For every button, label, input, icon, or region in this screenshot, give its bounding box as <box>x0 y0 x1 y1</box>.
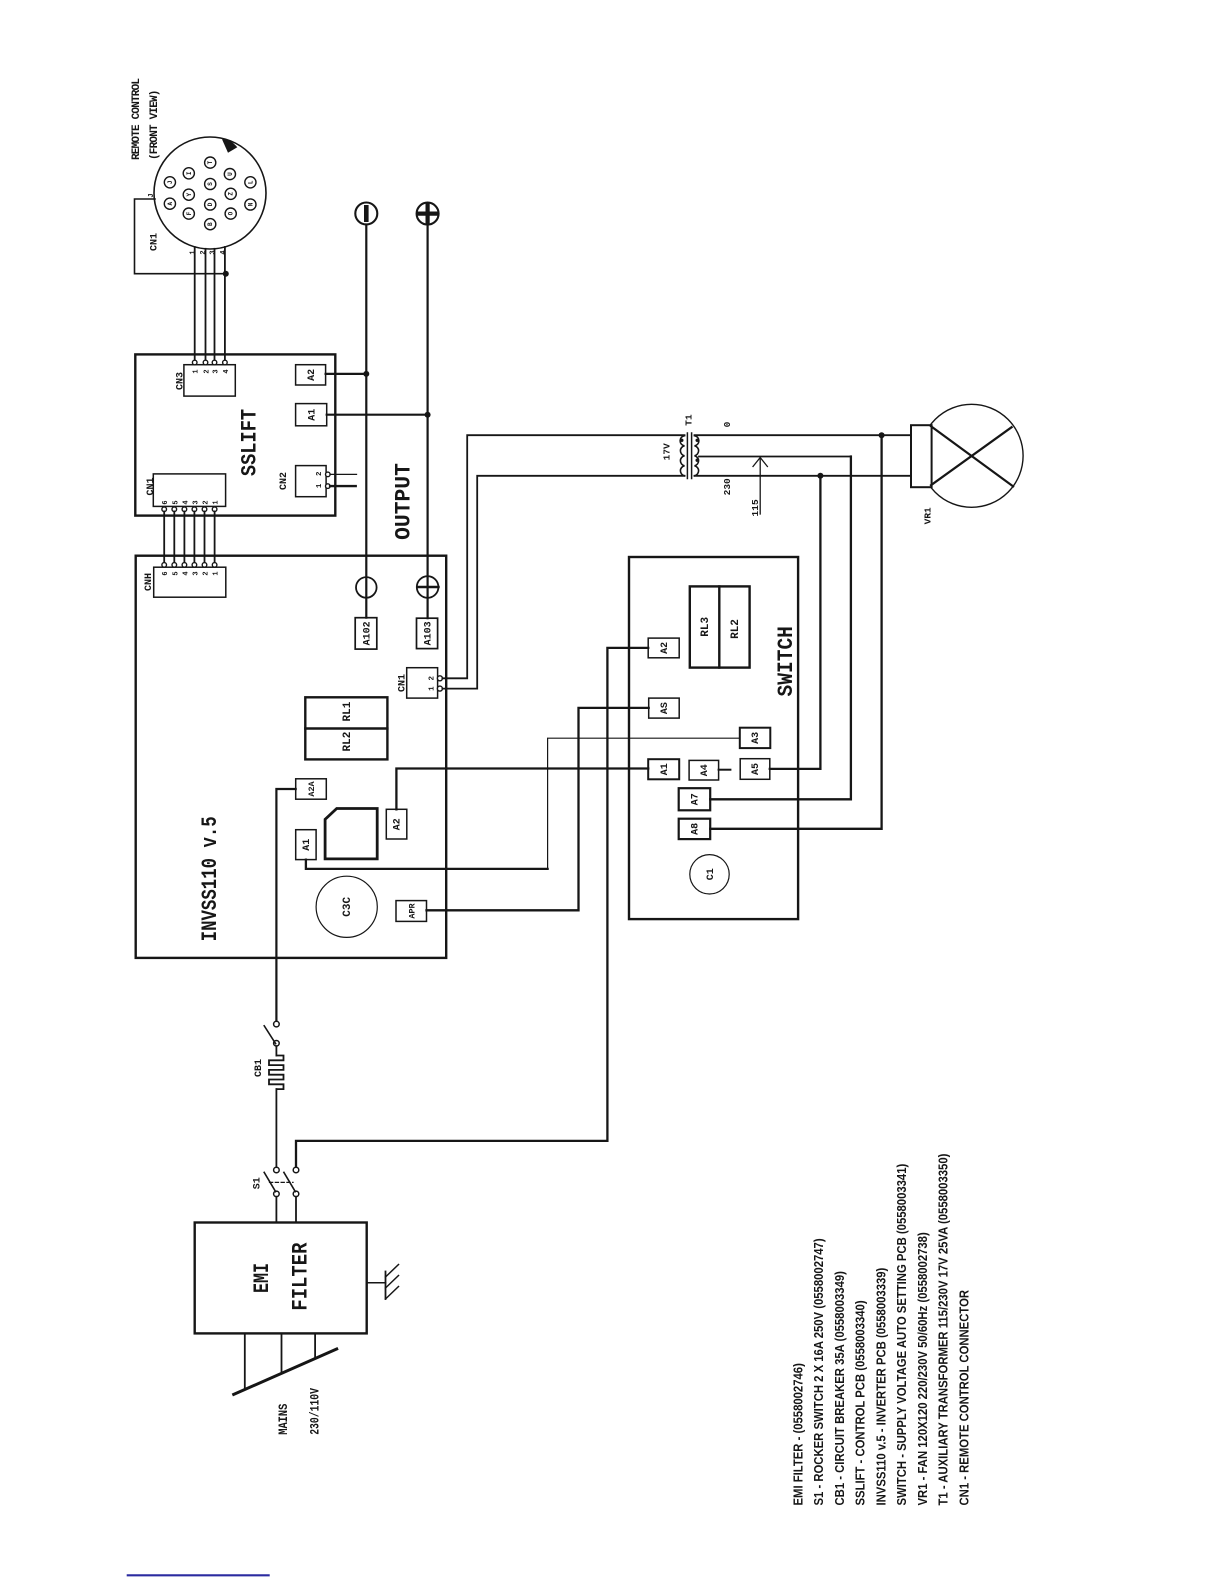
svg-text:S1 - ROCKER SWITCH 2 X 16A 250: S1 - ROCKER SWITCH 2 X 16A 250V (0558002… <box>811 1238 826 1505</box>
svg-text:CB1: CB1 <box>254 1059 265 1077</box>
svg-text:17V: 17V <box>662 443 673 460</box>
svg-text:230: 230 <box>722 478 733 495</box>
svg-text:S: S <box>207 182 214 186</box>
svg-text:CNH: CNH <box>144 573 155 591</box>
svg-text:CN2: CN2 <box>279 472 290 490</box>
svg-text:1: 1 <box>316 483 324 488</box>
svg-text:FILTER: FILTER <box>290 1242 315 1311</box>
svg-text:4: 4 <box>182 500 190 504</box>
svg-text:F: F <box>186 211 193 215</box>
svg-text:3: 3 <box>213 369 221 373</box>
svg-text:Z: Z <box>228 192 235 196</box>
svg-text:4: 4 <box>182 571 190 575</box>
svg-text:2: 2 <box>429 676 437 681</box>
svg-text:CN3: CN3 <box>176 372 187 390</box>
svg-text:L: L <box>247 180 254 184</box>
svg-text:A102: A102 <box>363 621 374 645</box>
svg-text:INVSS110 v.5: INVSS110 v.5 <box>197 816 223 941</box>
svg-text:1: 1 <box>193 369 201 373</box>
svg-text:1: 1 <box>213 571 221 575</box>
svg-text:2: 2 <box>203 571 211 575</box>
svg-text:APR: APR <box>407 902 417 918</box>
svg-text:A103: A103 <box>424 621 435 645</box>
svg-text:230/110V: 230/110V <box>308 1388 323 1435</box>
svg-text:1: 1 <box>429 686 437 691</box>
svg-text:CB1 - CIRCUIT BREAKER 35A (055: CB1 - CIRCUIT BREAKER 35A (0558003349) <box>832 1271 847 1505</box>
svg-text:INVSS110 v.5 - INVERTER PCB (0: INVSS110 v.5 - INVERTER PCB (0558003339) <box>874 1268 889 1506</box>
svg-text:A8: A8 <box>691 823 702 835</box>
svg-text:C3C: C3C <box>342 897 354 917</box>
svg-text:A2A: A2A <box>307 780 317 796</box>
svg-text:MAINS: MAINS <box>276 1404 291 1435</box>
svg-text:C1: C1 <box>706 868 717 880</box>
svg-text:SSLIFT: SSLIFT <box>238 409 263 476</box>
svg-text:A4: A4 <box>700 764 711 776</box>
svg-text:4: 4 <box>220 250 228 254</box>
svg-text:SSLIFT - CONTROL PCB (05580033: SSLIFT - CONTROL PCB (0558003340) <box>853 1300 868 1505</box>
svg-text:A3: A3 <box>751 732 762 744</box>
svg-text:D: D <box>207 202 214 206</box>
svg-text:A2: A2 <box>307 369 318 381</box>
svg-text:A: A <box>167 202 174 206</box>
svg-text:EMI: EMI <box>250 1263 275 1293</box>
svg-text:T1: T1 <box>683 414 694 426</box>
svg-text:RL1: RL1 <box>342 701 354 721</box>
svg-text:J: J <box>148 193 156 197</box>
svg-text:3: 3 <box>192 500 200 504</box>
svg-text:RL2: RL2 <box>730 619 742 639</box>
svg-text:AS: AS <box>660 702 671 714</box>
svg-text:U: U <box>227 172 234 176</box>
svg-text:Y: Y <box>186 193 193 197</box>
svg-text:RL2: RL2 <box>342 732 354 752</box>
svg-text:115: 115 <box>750 499 761 516</box>
svg-text:SWITCH: SWITCH <box>775 626 799 696</box>
svg-text:A2: A2 <box>393 818 404 830</box>
svg-text:6: 6 <box>162 571 170 575</box>
svg-text:CN1: CN1 <box>397 674 408 692</box>
svg-text:2: 2 <box>200 250 208 254</box>
svg-text:T: T <box>207 160 214 164</box>
svg-text:A1: A1 <box>302 839 313 851</box>
svg-text:OUTPUT: OUTPUT <box>391 463 416 540</box>
svg-text:T1 - AUXILIARY TRANSFORMER 115: T1 - AUXILIARY TRANSFORMER 115/230V 17V … <box>936 1154 951 1506</box>
svg-text:5: 5 <box>172 571 180 575</box>
svg-text:A5: A5 <box>751 763 762 775</box>
svg-text:1: 1 <box>213 500 221 504</box>
svg-text:A1: A1 <box>660 763 671 775</box>
svg-text:5: 5 <box>172 500 180 504</box>
svg-text:2: 2 <box>203 500 211 504</box>
svg-text:REMOTE CONTROL: REMOTE CONTROL <box>131 78 143 160</box>
svg-text:4: 4 <box>223 369 231 373</box>
svg-text:J: J <box>167 180 174 184</box>
svg-text:RL3: RL3 <box>700 617 712 637</box>
svg-text:A1: A1 <box>307 409 318 421</box>
svg-text:VR1 - FAN 120X120 220/230V 50/: VR1 - FAN 120X120 220/230V 50/60Hz (0558… <box>915 1232 930 1505</box>
svg-text:6: 6 <box>162 500 170 504</box>
svg-text:3: 3 <box>192 571 200 575</box>
svg-text:O: O <box>228 211 235 215</box>
svg-text:SWITCH - SUPPLY VOLTAGE AUTO S: SWITCH - SUPPLY VOLTAGE AUTO SETTING PCB… <box>894 1164 909 1506</box>
svg-text:2: 2 <box>204 369 212 373</box>
svg-text:CN1: CN1 <box>150 233 161 251</box>
svg-text:N: N <box>247 202 254 206</box>
svg-text:CN1: CN1 <box>146 477 157 495</box>
svg-text:(FRONT VIEW): (FRONT VIEW) <box>149 90 161 160</box>
svg-text:EMI FILTER - (0558002746): EMI FILTER - (0558002746) <box>791 1363 806 1505</box>
svg-text:2: 2 <box>316 471 324 476</box>
svg-text:VR1: VR1 <box>923 507 934 524</box>
svg-text:B: B <box>207 222 214 226</box>
svg-text:CN1 - REMOTE CONTROL CONNECTOR: CN1 - REMOTE CONTROL CONNECTOR <box>957 1290 972 1506</box>
svg-text:0: 0 <box>722 421 733 427</box>
svg-text:I: I <box>186 171 193 175</box>
svg-text:3: 3 <box>210 250 218 254</box>
svg-text:A2: A2 <box>660 642 671 654</box>
svg-text:S1: S1 <box>253 1177 264 1189</box>
svg-text:1: 1 <box>190 250 198 254</box>
svg-text:A7: A7 <box>691 793 702 805</box>
